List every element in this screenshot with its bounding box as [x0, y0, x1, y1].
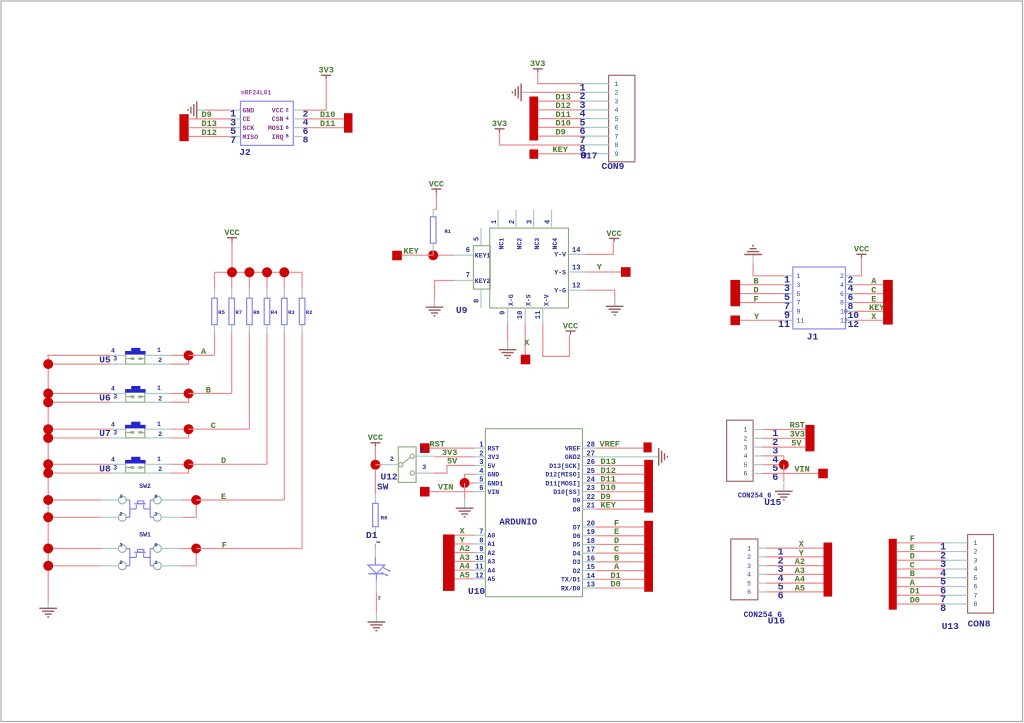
svg-text:2: 2: [158, 431, 162, 438]
svg-text:A: A: [201, 347, 207, 357]
svg-text:A2: A2: [488, 550, 496, 557]
svg-text:8: 8: [474, 299, 482, 303]
svg-text:1: 1: [479, 442, 483, 450]
svg-text:6: 6: [615, 125, 619, 132]
svg-text:Y-V: Y-V: [554, 252, 566, 259]
svg-text:X: X: [524, 338, 530, 348]
svg-text:D12[MISO]: D12[MISO]: [545, 472, 580, 479]
svg-text:2: 2: [479, 450, 483, 458]
svg-text:4: 4: [111, 456, 115, 463]
svg-text:7: 7: [797, 300, 801, 307]
svg-text:3: 3: [615, 98, 619, 105]
svg-text:2: 2: [158, 395, 162, 402]
svg-text:VIN: VIN: [438, 482, 453, 492]
svg-text:4: 4: [840, 282, 844, 289]
svg-text:KEY: KEY: [601, 501, 617, 511]
svg-text:3: 3: [113, 429, 117, 436]
svg-text:2: 2: [119, 559, 122, 566]
svg-text:12: 12: [840, 318, 848, 325]
svg-text:U16: U16: [768, 616, 785, 627]
svg-text:NC4: NC4: [552, 238, 559, 250]
svg-text:15: 15: [587, 564, 595, 572]
svg-text:D10[SS]: D10[SS]: [553, 489, 580, 496]
svg-text:SCK: SCK: [243, 125, 255, 132]
svg-text:27: 27: [587, 450, 595, 458]
svg-text:KEY2: KEY2: [475, 278, 491, 285]
svg-text:3: 3: [743, 444, 747, 451]
svg-text:8: 8: [974, 601, 978, 608]
svg-text:U17: U17: [580, 151, 597, 162]
svg-text:14: 14: [572, 247, 580, 255]
svg-text:1: 1: [797, 273, 801, 280]
svg-text:3V3: 3V3: [488, 454, 500, 461]
svg-text:1: 1: [154, 511, 158, 518]
svg-text:GND: GND: [243, 107, 255, 114]
svg-text:A1: A1: [488, 541, 496, 548]
svg-text:11: 11: [778, 320, 790, 331]
svg-text:RX/D0: RX/D0: [561, 585, 581, 592]
svg-text:A4: A4: [488, 567, 496, 574]
svg-text:1: 1: [747, 545, 751, 552]
svg-text:KEY: KEY: [404, 246, 420, 256]
svg-text:R4: R4: [271, 309, 278, 316]
svg-text:8: 8: [286, 133, 290, 140]
svg-text:A3: A3: [488, 559, 496, 566]
svg-text:10: 10: [475, 555, 483, 563]
svg-text:U13: U13: [942, 621, 959, 632]
svg-text:8: 8: [615, 142, 619, 149]
svg-text:VCC: VCC: [854, 245, 869, 255]
svg-text:7: 7: [466, 272, 470, 280]
svg-text:NC1: NC1: [499, 238, 506, 250]
svg-text:5V: 5V: [791, 438, 802, 448]
svg-text:3: 3: [974, 557, 978, 564]
svg-text:3: 3: [479, 459, 483, 467]
svg-text:3: 3: [113, 394, 117, 401]
svg-text:5: 5: [747, 580, 751, 587]
svg-text:VCC: VCC: [368, 433, 383, 443]
svg-text:2: 2: [378, 596, 381, 602]
svg-text:R6: R6: [253, 309, 260, 316]
svg-text:D9: D9: [573, 498, 581, 505]
svg-text:8: 8: [479, 537, 483, 545]
svg-text:R5: R5: [218, 309, 225, 316]
svg-text:nRF24L01: nRF24L01: [241, 90, 271, 97]
svg-text:5: 5: [743, 462, 747, 469]
svg-text:VIN: VIN: [794, 465, 809, 475]
svg-text:D12: D12: [202, 128, 217, 138]
svg-text:D13[SCK]: D13[SCK]: [549, 463, 580, 470]
svg-text:4: 4: [747, 572, 751, 579]
svg-text:D0: D0: [910, 595, 920, 605]
svg-text:6: 6: [974, 584, 978, 591]
svg-text:5: 5: [615, 116, 619, 123]
svg-text:5V: 5V: [488, 463, 496, 470]
svg-text:SW: SW: [377, 481, 389, 492]
svg-text:NC2: NC2: [517, 238, 524, 250]
svg-text:CSN: CSN: [272, 116, 284, 123]
svg-text:5: 5: [474, 237, 482, 241]
svg-text:1: 1: [157, 385, 161, 392]
svg-text:A5: A5: [795, 583, 805, 593]
svg-text:MOSI: MOSI: [268, 125, 284, 132]
svg-text:6: 6: [479, 485, 483, 493]
svg-text:D4: D4: [573, 550, 581, 557]
svg-text:R1: R1: [445, 228, 452, 235]
svg-text:SW2: SW2: [139, 483, 151, 490]
svg-text:R8: R8: [381, 515, 388, 522]
svg-text:2: 2: [747, 554, 751, 561]
svg-text:3: 3: [113, 464, 117, 471]
svg-text:J2: J2: [239, 147, 251, 158]
svg-text:U9: U9: [456, 305, 468, 316]
svg-text:10: 10: [517, 311, 525, 319]
svg-text:2: 2: [615, 90, 619, 97]
svg-text:2: 2: [743, 436, 747, 443]
svg-text:7: 7: [615, 133, 619, 140]
svg-text:VCC: VCC: [606, 229, 621, 239]
svg-text:1: 1: [157, 347, 161, 354]
svg-text:GND: GND: [488, 472, 500, 479]
svg-text:GND2: GND2: [565, 454, 581, 461]
svg-text:U15: U15: [764, 497, 781, 508]
svg-text:11: 11: [535, 311, 543, 319]
svg-text:VCC: VCC: [224, 228, 239, 238]
svg-text:20: 20: [587, 521, 595, 529]
svg-text:2: 2: [509, 220, 517, 224]
svg-text:D0: D0: [611, 580, 621, 590]
svg-text:10: 10: [840, 309, 848, 316]
svg-text:D9: D9: [556, 127, 566, 137]
svg-text:D3: D3: [573, 559, 581, 566]
svg-text:6: 6: [747, 589, 751, 596]
svg-text:R7: R7: [236, 309, 243, 316]
svg-text:23: 23: [587, 485, 595, 493]
svg-text:VCC: VCC: [429, 179, 444, 189]
svg-text:E: E: [221, 492, 226, 502]
svg-text:8: 8: [840, 300, 844, 307]
svg-text:KEY: KEY: [553, 145, 569, 155]
svg-text:4: 4: [479, 468, 483, 476]
svg-text:6: 6: [772, 473, 778, 484]
svg-text:5: 5: [974, 575, 978, 582]
svg-text:A0: A0: [488, 533, 496, 540]
svg-text:2: 2: [158, 357, 162, 364]
svg-text:D8: D8: [573, 506, 581, 513]
svg-text:4: 4: [615, 107, 619, 114]
svg-text:VREF: VREF: [565, 445, 581, 452]
svg-text:D6: D6: [573, 533, 581, 540]
svg-text:GND1: GND1: [488, 480, 504, 487]
svg-text:IRQ: IRQ: [272, 134, 284, 141]
svg-text:1: 1: [615, 81, 619, 88]
svg-text:9: 9: [479, 546, 483, 554]
svg-text:6: 6: [840, 291, 844, 298]
svg-text:6: 6: [154, 542, 157, 549]
svg-text:RST: RST: [488, 445, 500, 452]
svg-text:A5: A5: [488, 576, 496, 583]
svg-text:D2: D2: [573, 568, 581, 575]
svg-text:4: 4: [111, 348, 115, 355]
svg-text:5: 5: [797, 291, 801, 298]
svg-text:21: 21: [587, 503, 595, 511]
svg-text:VIN: VIN: [488, 489, 500, 496]
svg-text:D11: D11: [320, 119, 335, 129]
svg-text:1: 1: [743, 427, 747, 434]
svg-text:3: 3: [747, 563, 751, 570]
svg-text:VCC: VCC: [563, 321, 578, 331]
svg-text:J1: J1: [807, 332, 819, 343]
svg-text:8: 8: [940, 604, 946, 615]
svg-text:VREF: VREF: [600, 439, 620, 449]
svg-text:2: 2: [158, 466, 162, 473]
svg-text:D7: D7: [573, 524, 581, 531]
svg-text:6: 6: [286, 124, 289, 131]
svg-text:25: 25: [587, 468, 595, 476]
svg-text:D: D: [221, 456, 226, 466]
svg-text:SW1: SW1: [139, 532, 151, 539]
svg-text:7: 7: [230, 136, 236, 147]
svg-text:7: 7: [974, 592, 978, 599]
svg-text:17: 17: [587, 547, 595, 555]
svg-text:4: 4: [974, 566, 978, 573]
svg-text:2: 2: [119, 511, 122, 518]
svg-text:4: 4: [286, 115, 290, 122]
svg-text:1: 1: [157, 456, 161, 463]
svg-text:6: 6: [154, 493, 157, 500]
svg-text:Y-G: Y-G: [554, 288, 566, 295]
svg-text:18: 18: [587, 538, 595, 546]
svg-text:26: 26: [587, 459, 595, 467]
svg-text:2: 2: [390, 456, 394, 463]
svg-text:R2: R2: [306, 309, 313, 316]
svg-text:4: 4: [111, 421, 115, 428]
svg-text:CON9: CON9: [602, 161, 625, 172]
svg-text:1: 1: [491, 220, 499, 224]
svg-text:3V3: 3V3: [492, 119, 507, 129]
svg-text:1: 1: [421, 447, 425, 454]
svg-text:3: 3: [797, 282, 801, 289]
svg-text:Y-S: Y-S: [554, 269, 566, 276]
svg-text:MISO: MISO: [243, 134, 259, 141]
svg-text:U10: U10: [468, 586, 485, 597]
svg-text:3: 3: [422, 464, 426, 471]
svg-text:C: C: [211, 421, 216, 431]
svg-text:Y: Y: [754, 312, 760, 322]
svg-text:B: B: [206, 385, 211, 395]
svg-text:D5: D5: [573, 542, 581, 549]
svg-text:2: 2: [840, 273, 844, 280]
svg-text:9: 9: [615, 151, 619, 158]
svg-text:3: 3: [527, 220, 535, 224]
svg-text:19: 19: [587, 529, 595, 537]
svg-text:R3: R3: [288, 309, 295, 316]
svg-text:X-V: X-V: [543, 294, 550, 306]
svg-text:9: 9: [500, 311, 508, 315]
svg-text:5V: 5V: [447, 457, 458, 467]
svg-text:6: 6: [466, 247, 470, 255]
svg-text:X-S: X-S: [526, 294, 533, 306]
svg-text:11: 11: [475, 564, 483, 572]
svg-text:ARDUNIO: ARDUNIO: [499, 518, 537, 528]
svg-text:X: X: [871, 312, 877, 322]
svg-text:CE: CE: [243, 116, 251, 123]
svg-text:14: 14: [587, 573, 595, 581]
svg-text:13: 13: [572, 265, 580, 273]
svg-text:6: 6: [778, 591, 784, 602]
svg-text:9: 9: [797, 309, 801, 316]
svg-text:6: 6: [743, 471, 747, 478]
svg-text:28: 28: [587, 442, 595, 450]
svg-text:12: 12: [475, 572, 483, 580]
svg-text:24: 24: [587, 476, 595, 484]
svg-text:13: 13: [587, 582, 595, 590]
svg-text:16: 16: [587, 555, 595, 563]
svg-text:1: 1: [974, 540, 978, 547]
svg-text:8: 8: [303, 135, 309, 146]
svg-text:4: 4: [545, 220, 553, 224]
svg-text:5: 5: [479, 476, 483, 484]
svg-text:2: 2: [974, 549, 978, 556]
svg-text:D11[MOSI]: D11[MOSI]: [545, 480, 580, 487]
svg-text:Y: Y: [597, 263, 603, 273]
svg-text:VCC: VCC: [272, 107, 284, 114]
svg-text:12: 12: [572, 283, 580, 291]
svg-text:3V3: 3V3: [319, 66, 334, 76]
svg-text:A5: A5: [460, 570, 470, 580]
svg-text:F: F: [222, 540, 227, 550]
svg-text:CON8: CON8: [968, 619, 991, 630]
svg-text:22: 22: [587, 494, 595, 502]
svg-text:3: 3: [113, 356, 117, 363]
svg-text:F: F: [754, 294, 759, 304]
svg-text:1: 1: [154, 559, 158, 566]
svg-text:3V3: 3V3: [530, 59, 545, 69]
svg-text:D1: D1: [366, 530, 378, 541]
svg-text:2: 2: [286, 106, 289, 113]
svg-text:4: 4: [743, 453, 747, 460]
svg-text:11: 11: [797, 318, 805, 325]
svg-text:7: 7: [479, 529, 483, 537]
svg-text:KEY1: KEY1: [475, 253, 491, 260]
svg-text:X-G: X-G: [508, 294, 515, 306]
svg-text:1: 1: [157, 421, 161, 428]
svg-text:NC3: NC3: [534, 238, 541, 250]
svg-text:4: 4: [111, 386, 115, 393]
svg-text:TX/D1: TX/D1: [561, 577, 581, 584]
